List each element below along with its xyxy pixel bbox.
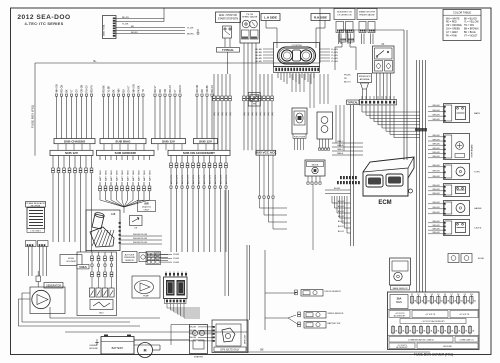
svg-text:WH-GN: WH-GN — [189, 334, 197, 336]
svg-text:PRESSURE: PRESSURE — [124, 257, 136, 259]
svg-text:HOLDER: HOLDER — [66, 261, 76, 263]
ECM feed bus pair — [350, 105, 352, 246]
fuse box F91 left boundary — [34, 63, 36, 156]
svg-text:MAIN: MAIN — [396, 301, 402, 304]
svg-text:RD: RD — [160, 89, 162, 93]
middle drop wires into accessory bars — [213, 74, 215, 96]
relay block bottom pin row — [165, 299, 187, 304]
svg-text:OR = ORANGE: OR = ORANGE — [446, 24, 462, 27]
svg-text:FUSE BOX (F91): FUSE BOX (F91) — [31, 105, 35, 128]
svg-text:BATT GND: BATT GND — [148, 170, 151, 181]
svg-text:BK-RD: BK-RD — [255, 52, 262, 54]
svg-text:(11): (11) — [218, 112, 220, 116]
svg-text:ALTITUDE: ALTITUDE — [125, 253, 135, 256]
svg-text:CAN-L: CAN-L — [337, 140, 344, 143]
bus bar SUB 12V B — [194, 139, 218, 144]
altitude sensor label box — [122, 252, 137, 263]
safety lanyard switch box — [390, 258, 411, 285]
svg-text:SUB 12V: SUB 12V — [199, 139, 213, 143]
svg-text:WH-GN: WH-GN — [433, 105, 441, 107]
svg-text:WH-GN RD-GN: WH-GN RD-GN — [133, 234, 148, 236]
main vertical trunk pair — [403, 30, 405, 160]
svg-text:WH-GN: WH-GN — [189, 337, 197, 339]
svg-text:DIAG TOOL: DIAG TOOL — [103, 23, 106, 36]
svg-text:TOPS: TOPS — [474, 172, 480, 174]
right component — [444, 134, 470, 160]
svg-text:BK-RD: BK-RD — [131, 32, 138, 34]
sensor feed wires — [265, 292, 296, 294]
svg-text:BK: BK — [260, 349, 264, 352]
engine start/stop button label box — [216, 12, 241, 23]
ECM 3D housing — [363, 157, 414, 196]
svg-text:BATTERY: BATTERY — [112, 346, 124, 350]
mode/set pin wires — [338, 34, 340, 45]
svg-text:BU-GY: BU-GY — [338, 231, 345, 233]
fuse row 2 icons — [392, 325, 394, 335]
svg-text:BATT GND: BATT GND — [115, 170, 118, 181]
svg-text:(11): (11) — [272, 112, 274, 116]
svg-text:ACC 12V: ACC 12V — [170, 174, 173, 184]
altitude sensor connector — [139, 253, 147, 262]
gauge pin wires — [243, 43, 245, 52]
fuel pump module tall box — [292, 108, 307, 134]
ECM connector recess B — [386, 174, 403, 186]
wires to ECM from left — [332, 142, 363, 144]
iBR actuator pins right — [119, 222, 121, 224]
svg-text:WH-GN RD-GN: WH-GN RD-GN — [133, 242, 148, 244]
svg-text:BATTERY SW: BATTERY SW — [328, 322, 341, 325]
svg-text:LH LEVER ON: LH LEVER ON — [338, 14, 352, 16]
wire stub group from J-DIAG — [116, 27, 186, 29]
typical callout bar B — [347, 100, 360, 104]
svg-text:+12 VOLTS ACCESSORY: +12 VOLTS ACCESSORY — [421, 320, 445, 323]
svg-text:R.H SIDE: R.H SIDE — [314, 16, 327, 20]
svg-text:RD-BK: RD-BK — [103, 85, 105, 93]
svg-text:BK-RD: BK-RD — [255, 61, 262, 63]
bus bar SUB CHASSIS — [54, 139, 95, 144]
svg-text:SUB ON ACCESSORY: SUB ON ACCESSORY — [183, 151, 216, 155]
svg-text:(11): (11) — [214, 112, 216, 116]
svg-text:(11): (11) — [226, 112, 228, 116]
svg-text:4-TEC·iTC SERIES: 4-TEC·iTC SERIES — [25, 21, 64, 26]
svg-text:F5: F5 — [437, 294, 439, 296]
bus bar SUB 12V A — [152, 139, 186, 144]
svg-text:OR: OR — [165, 89, 167, 93]
starter motor — [138, 343, 153, 358]
ECM connector recess A — [366, 175, 383, 187]
svg-text:BATT GND: BATT GND — [143, 170, 146, 181]
svg-text:iBR: iBR — [144, 203, 148, 206]
svg-text:FUEL PUMP: FUEL PUMP — [294, 137, 306, 139]
altitude sensor wires — [147, 254, 168, 256]
small accessory comp top — [448, 254, 459, 263]
cluster right pin labels — [320, 48, 331, 50]
svg-text:WH-GN: WH-GN — [133, 84, 135, 92]
iBR actuator outer box — [86, 210, 120, 251]
svg-text:RD-GY: RD-GY — [170, 85, 172, 93]
bus junction squares — [415, 128, 418, 131]
svg-text:G1B: G1B — [111, 214, 116, 216]
svg-text:DPS UNIT: DPS UNIT — [245, 334, 247, 344]
svg-text:WH-GN: WH-GN — [433, 207, 441, 209]
svg-text:WH = WHITE: WH = WHITE — [446, 18, 460, 20]
svg-text:BU-GY: BU-GY — [338, 201, 345, 203]
svg-text:(11): (11) — [260, 112, 262, 116]
svg-text:RECTIFIER: RECTIFIER — [31, 205, 41, 207]
label row +12V accessory/12V — [388, 309, 480, 311]
svg-text:ECM: ECM — [378, 200, 391, 206]
svg-text:SENSOR: SENSOR — [125, 260, 134, 262]
start/stop pin stubs — [224, 38, 226, 47]
svg-text:CAN-H: CAN-H — [337, 152, 344, 155]
svg-text:F4: F4 — [431, 294, 433, 296]
ECM mount hole — [409, 189, 413, 193]
svg-text:WH-GN: WH-GN — [433, 144, 441, 146]
svg-text:GY: GY — [76, 89, 78, 93]
svg-text:WH-GN: WH-GN — [433, 119, 441, 121]
svg-text:BATT GND: BATT GND — [126, 170, 129, 181]
svg-text:YL-BK: YL-BK — [122, 23, 129, 25]
bus bar SUB VCC ACC — [256, 150, 276, 155]
DPS motor icon — [222, 328, 235, 342]
speed gauge box — [240, 12, 260, 44]
svg-text:F10: F10 — [470, 294, 473, 296]
ground stub symbol — [197, 29, 199, 33]
right component MAPS — [444, 104, 470, 123]
left frame drop wire — [319, 8, 321, 63]
mid sensor relay box — [305, 160, 325, 176]
spare pin wires — [361, 34, 363, 45]
svg-text:YL-BK: YL-BK — [187, 28, 194, 30]
svg-text:WH-GN: WH-GN — [433, 148, 441, 150]
svg-text:SPEED SENSOR: SPEED SENSOR — [328, 313, 344, 315]
merged +12V accessory bar — [400, 319, 466, 324]
svg-text:ACCESSORY: ACCESSORY — [394, 315, 407, 318]
coil module box — [90, 300, 113, 310]
svg-text:30A: 30A — [397, 297, 402, 301]
svg-text:BU-GY: BU-GY — [338, 216, 345, 218]
battery — [101, 337, 134, 355]
cluster center display — [293, 50, 301, 61]
cluster oval body — [278, 47, 316, 64]
GPS antenna symbol — [361, 83, 369, 89]
iBR actuator hatched body — [90, 227, 114, 247]
svg-text:TN = TAN: TN = TAN — [464, 24, 474, 27]
svg-text:GY-BK: GY-BK — [173, 258, 180, 260]
svg-text:FUSE BOX COVER (F91): FUSE BOX COVER (F91) — [414, 353, 453, 357]
bus bar SUB DIAG — [100, 139, 146, 144]
svg-text:F7: F7 — [451, 294, 453, 296]
mode/set connector symbols — [336, 22, 344, 33]
svg-text:BU-GY: BU-GY — [338, 221, 345, 223]
right bus verticals — [416, 60, 418, 330]
svg-text:WH-GN: WH-GN — [433, 110, 441, 112]
svg-text:WAKE SENSOR: WAKE SENSOR — [393, 287, 408, 290]
info center cluster outer box — [274, 43, 320, 67]
lower long runs — [65, 331, 247, 333]
RH top connector pair — [340, 30, 347, 42]
DPS connector pins — [213, 326, 215, 328]
svg-text:PUMP: PUMP — [143, 296, 149, 298]
center vertical trunk wires — [224, 190, 226, 296]
svg-text:+12 VOLTS: +12 VOLTS — [425, 314, 436, 316]
svg-text:ACC 12V: ACC 12V — [175, 174, 178, 184]
GPS antenna label box — [358, 74, 372, 83]
svg-text:RD: RD — [202, 89, 204, 93]
wires under cluster right to components — [291, 74, 293, 92]
DPS inner box — [216, 324, 241, 346]
bus bar SUB GROUND — [97, 150, 155, 155]
right component TOPS — [444, 164, 470, 180]
svg-text:(11): (11) — [244, 112, 246, 116]
svg-text:WH-GN: WH-GN — [433, 232, 441, 234]
svg-text:WH-GN: WH-GN — [433, 225, 441, 227]
mid sensor wires right — [325, 189, 351, 191]
spare/depth label box — [357, 9, 377, 20]
svg-text:GROUND: GROUND — [89, 348, 98, 350]
gauge connectors — [242, 30, 250, 39]
svg-text:CAN-H: CAN-H — [337, 144, 344, 147]
svg-text:TN: TN — [143, 89, 145, 92]
svg-text:BATT GND: BATT GND — [99, 170, 102, 181]
svg-text:WH-GN: WH-GN — [433, 189, 441, 191]
sensor KNOCK SENSOR — [295, 290, 298, 292]
svg-text:MAPS: MAPS — [474, 112, 481, 115]
gauge drop wires — [243, 52, 245, 74]
svg-text:SUB 12V: SUB 12V — [65, 151, 79, 155]
svg-text:BK-GY: BK-GY — [344, 82, 351, 84]
svg-text:WH-GN: WH-GN — [189, 330, 197, 332]
svg-text:F8: F8 — [457, 294, 459, 296]
svg-text:WH-GN: WH-GN — [433, 193, 441, 195]
svg-text:LTD ONLY: LTD ONLY — [31, 231, 42, 233]
cluster right dial — [300, 50, 311, 61]
F4 switch cell with lever — [375, 48, 393, 59]
generator circle — [32, 290, 50, 308]
svg-text:PK-BK: PK-BK — [344, 75, 351, 77]
svg-text:MODE: MODE — [312, 165, 319, 167]
svg-text:SUB CHASSIS: SUB CHASSIS — [64, 139, 85, 143]
svg-text:FINDER GAUGE: FINDER GAUGE — [359, 13, 375, 16]
svg-text:COILS: COILS — [79, 266, 87, 269]
svg-text:WH-GN RD-GN: WH-GN RD-GN — [133, 238, 148, 240]
svg-text:BU-BK: BU-BK — [334, 188, 341, 190]
wires below SUB VCC ACC staircase — [259, 155, 261, 196]
svg-text:(iS)(LTD): (iS)(LTD) — [142, 207, 151, 209]
svg-text:SHIFT/BRAKE: SHIFT/BRAKE — [470, 144, 473, 158]
RH side drop wire — [324, 21, 326, 29]
cluster left dial — [281, 50, 292, 61]
svg-text:ACC 12V: ACC 12V — [219, 174, 222, 184]
svg-text:PK = PINK: PK = PINK — [446, 35, 457, 37]
svg-text:(11): (11) — [256, 112, 258, 116]
iBR actuator cylinder — [92, 214, 104, 229]
iBR gate sensor box — [130, 216, 143, 226]
svg-text:BATT GND: BATT GND — [121, 170, 124, 181]
color table box — [443, 10, 481, 41]
cluster bottom drop wires — [277, 73, 279, 79]
J2 top stub wires — [361, 96, 363, 100]
O2 module pins — [319, 139, 321, 148]
svg-text:+12 VOLTS: +12 VOLTS — [459, 314, 470, 316]
relay block top pins — [165, 272, 167, 278]
svg-text:SUB 12V: SUB 12V — [162, 139, 176, 143]
svg-text:WH-GN: WH-GN — [433, 176, 441, 178]
engine section outer box — [77, 252, 117, 316]
svg-text:SPARE OR DPTH: SPARE OR DPTH — [359, 10, 376, 13]
svg-text:(11): (11) — [230, 112, 232, 116]
oil pump box — [132, 276, 160, 298]
right component — [444, 184, 470, 197]
coil connector rows — [91, 252, 93, 256]
svg-text:KNOCK SENSOR: KNOCK SENSOR — [325, 291, 342, 293]
svg-text:ACC 12V: ACC 12V — [186, 174, 189, 184]
svg-text:START/STOP BTN: START/STOP BTN — [218, 18, 238, 21]
svg-text:2012 SEA-DOO: 2012 SEA-DOO — [17, 14, 70, 21]
svg-text:PK-BK: PK-BK — [138, 85, 140, 92]
svg-text:WH-GN: WH-GN — [433, 185, 441, 187]
svg-text:WH-GN: WH-GN — [433, 135, 441, 137]
svg-text:MODE/SET ON: MODE/SET ON — [337, 11, 352, 13]
generator label box — [44, 283, 63, 289]
svg-text:(11): (11) — [222, 112, 224, 116]
svg-text:WH-GN: WH-GN — [189, 341, 197, 343]
svg-text:ACC 12V: ACC 12V — [181, 174, 184, 184]
svg-text:YL-GN: YL-GN — [331, 55, 338, 57]
svg-text:RD-OR: RD-OR — [197, 85, 199, 93]
svg-text:ENGINE: ENGINE — [90, 345, 98, 347]
svg-text:GN = GREEN: GN = GREEN — [446, 29, 460, 31]
voltage regulator body — [27, 208, 45, 229]
svg-text:(11): (11) — [264, 112, 266, 116]
svg-text:GY-BK: GY-BK — [173, 254, 180, 256]
svg-text:RD-GY: RD-GY — [212, 85, 214, 93]
O2 module tall box — [317, 112, 333, 139]
starter solenoid box — [190, 325, 208, 354]
iBR wires right with labels — [121, 235, 162, 237]
svg-text:WH-GN: WH-GN — [433, 152, 441, 154]
ignition coil symbols — [89, 288, 94, 297]
svg-text:ACC 12V: ACC 12V — [225, 174, 228, 184]
svg-text:VT = VIOLET: VT = VIOLET — [464, 35, 478, 37]
svg-text:ONLY: ONLY — [144, 209, 150, 211]
svg-text:SUB GROUND: SUB GROUND — [115, 151, 137, 155]
svg-text:WH-GN: WH-GN — [433, 156, 441, 158]
svg-text:YL-BK: YL-BK — [108, 85, 110, 92]
svg-text:DPS iS/LTD ONLY: DPS iS/LTD ONLY — [221, 350, 240, 352]
right component C.A.P.S. — [444, 220, 470, 236]
wires from J-DIAG to vertical riser — [116, 18, 165, 20]
antenna drop wires — [362, 89, 364, 100]
svg-text:BATT GND: BATT GND — [137, 170, 140, 181]
svg-text:WH-GN: WH-GN — [433, 212, 441, 214]
svg-text:RD-PU: RD-PU — [122, 17, 129, 19]
generator wire loops — [22, 293, 130, 322]
svg-text:CAN-L: CAN-L — [337, 148, 344, 151]
svg-text:BK-RD: BK-RD — [255, 58, 262, 60]
svg-text:C.A.P.S.: C.A.P.S. — [474, 227, 482, 230]
communication row — [388, 335, 480, 337]
bus bar SUB ON ACCESSORY — [168, 150, 230, 155]
svg-text:BU-GY: BU-GY — [338, 211, 345, 213]
regulator bottom label bar — [27, 229, 45, 233]
lanyard caption bar — [391, 286, 410, 290]
connector J-DIAG (diagnostic link) — [103, 16, 117, 39]
svg-text:BU = BLUE: BU = BLUE — [464, 32, 476, 34]
fuel pump module pins — [294, 138, 296, 150]
start/stop switch symbol — [223, 26, 232, 38]
svg-text:BK = BLACK: BK = BLACK — [464, 17, 477, 20]
gauge faces — [242, 20, 250, 28]
fuse box top rail — [35, 62, 320, 64]
svg-text:ACC 12V: ACC 12V — [197, 174, 200, 184]
sensor BATTERY SW — [298, 322, 301, 324]
svg-text:WH-GN: WH-GN — [433, 165, 441, 167]
svg-text:BU: BU — [123, 89, 125, 93]
svg-text:BN = BROWN: BN = BROWN — [464, 29, 479, 31]
svg-text:ACCESSORY: ACCESSORY — [396, 346, 408, 349]
svg-text:YL-GN: YL-GN — [331, 58, 338, 60]
DPS caption bar — [214, 347, 246, 352]
regulator pin connector row — [26, 241, 37, 247]
svg-text:RD-PU: RD-PU — [91, 85, 93, 93]
svg-text:F2: F2 — [418, 294, 420, 296]
svg-text:OR-GN: OR-GN — [81, 85, 83, 93]
svg-text:F6: F6 — [444, 294, 446, 296]
LH side drop wire — [265, 21, 267, 29]
svg-text:FUSE: FUSE — [68, 258, 74, 260]
R.H SIDE label box — [311, 14, 330, 21]
battery-solenoid cables — [134, 339, 190, 341]
right component GAUGE — [444, 201, 470, 216]
svg-text:GY-VT: GY-VT — [128, 85, 130, 92]
svg-text:BK-RD: BK-RD — [187, 34, 194, 36]
svg-text:WH-GN: WH-GN — [433, 202, 441, 204]
ignition bus label bar — [77, 265, 89, 269]
svg-text:L.H SIDE: L.H SIDE — [264, 16, 277, 20]
svg-text:WH-GN: WH-GN — [189, 327, 197, 329]
svg-text:RD-PU: RD-PU — [180, 85, 182, 93]
svg-text:ANTENNA: ANTENNA — [360, 78, 370, 81]
main fuse cell — [390, 295, 408, 309]
ground convergence node G1 — [100, 200, 124, 207]
link stubs between bus rows — [57, 144, 59, 151]
svg-text:WH-GN: WH-GN — [433, 115, 441, 117]
relay block bottom wires — [166, 304, 168, 309]
RH top connector wires — [341, 42, 343, 47]
svg-text:OR-BK: OR-BK — [207, 85, 209, 93]
DPS unit outer box — [212, 320, 248, 353]
relay K9 HEAT box — [248, 93, 260, 107]
ECM right staircase wires — [331, 196, 333, 203]
voltage regulator label box — [26, 202, 46, 208]
svg-text:WH-GN: WH-GN — [433, 171, 441, 173]
svg-text:STARTER: STARTER — [194, 356, 204, 359]
svg-text:SUB DIAG: SUB DIAG — [115, 139, 131, 143]
svg-text:M: M — [144, 349, 147, 353]
F4 relay cell right — [385, 61, 393, 72]
regulator wires down — [28, 247, 30, 277]
F4 pin drops — [376, 73, 378, 100]
wires below SUB GROUND with labels — [99, 156, 101, 161]
svg-text:BATT GND: BATT GND — [104, 170, 107, 181]
junction connector row J2 — [360, 100, 397, 105]
ECM harness pin rows — [337, 181, 339, 184]
MODE/SET lever label box — [334, 9, 355, 20]
svg-text:COMM (CAN LO): COMM (CAN LO) — [459, 339, 473, 342]
svg-text:GAUGE: GAUGE — [474, 207, 482, 210]
svg-text:WH-GN: WH-GN — [56, 84, 58, 92]
